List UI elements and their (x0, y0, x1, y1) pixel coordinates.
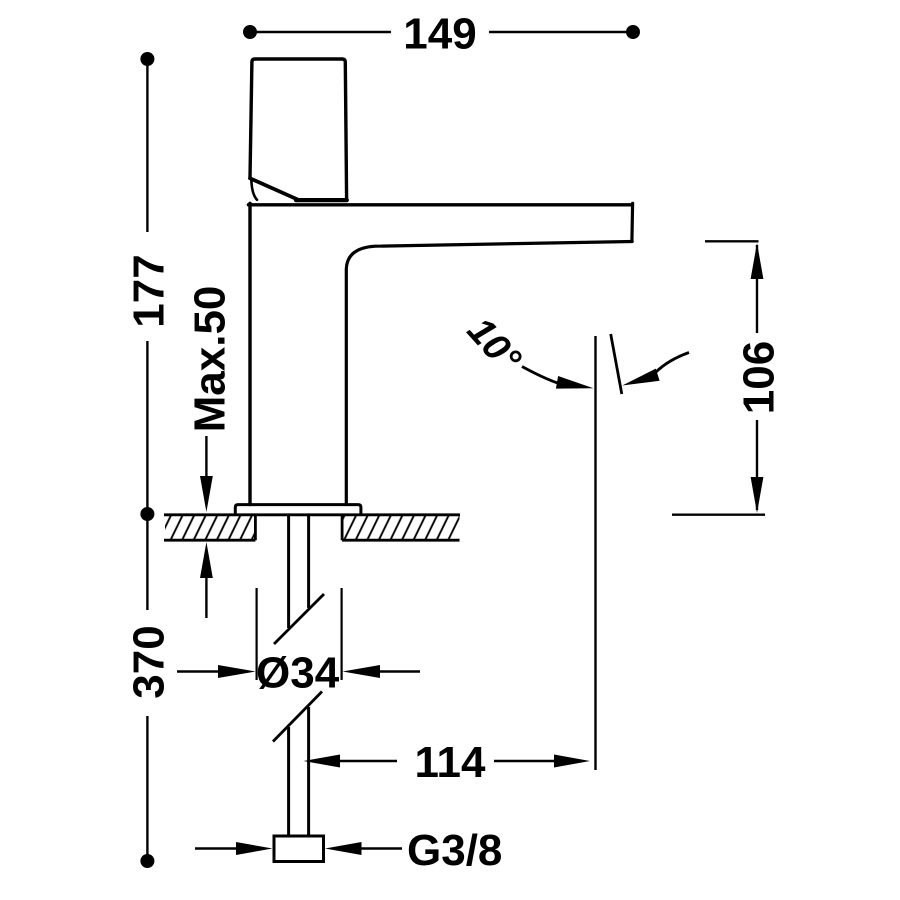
svg-text:Max.50: Max.50 (186, 286, 235, 433)
svg-text:G3/8: G3/8 (407, 826, 502, 875)
svg-text:Ø34: Ø34 (256, 649, 340, 698)
svg-text:177: 177 (125, 254, 174, 327)
svg-text:114: 114 (415, 738, 487, 787)
svg-text:106: 106 (735, 341, 784, 414)
svg-text:370: 370 (125, 625, 174, 698)
svg-text:149: 149 (403, 10, 476, 59)
